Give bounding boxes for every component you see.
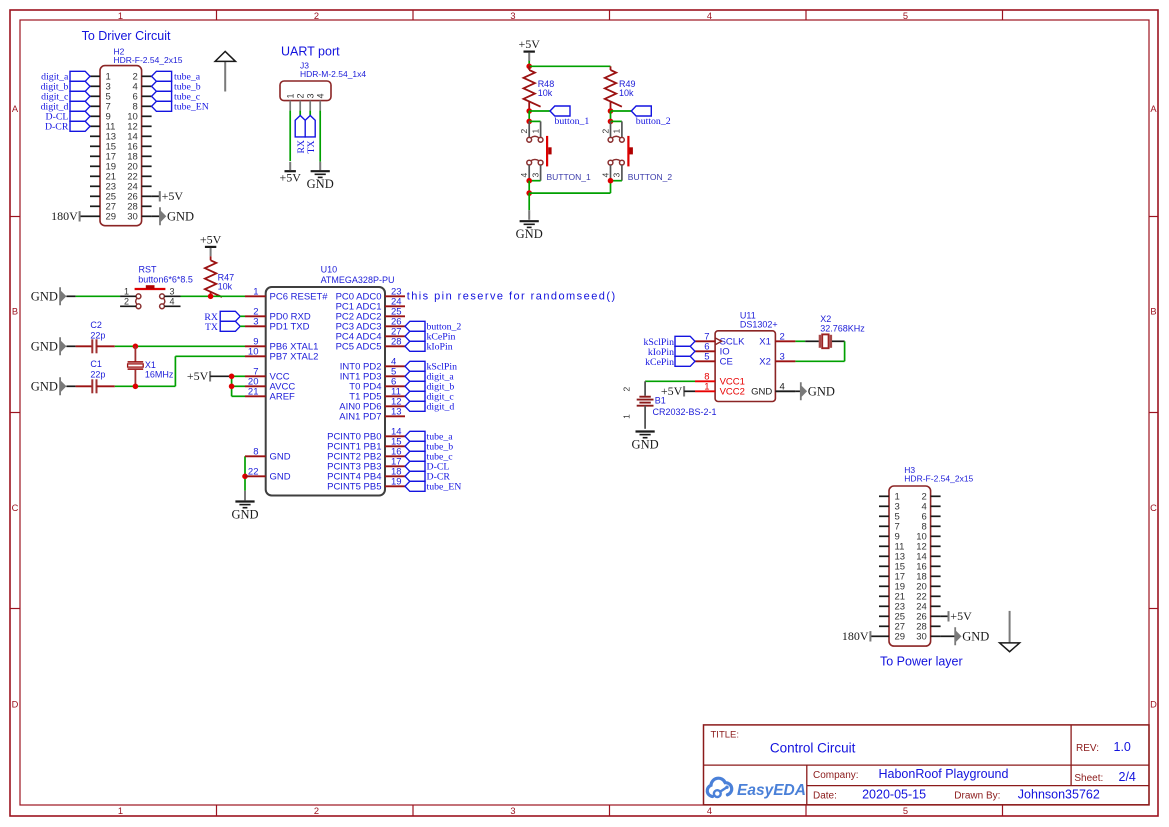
- U10 right pins: leads, numbers, names: [327, 287, 405, 493]
- H2 pins 1-30: stubs and pin numbers: [90, 72, 152, 223]
- svg-text:3: 3: [530, 173, 540, 178]
- wire junction to R49 top: [529, 65, 610, 67]
- svg-text:PD1 TXD: PD1 TXD: [270, 322, 310, 333]
- svg-text:GND: GND: [962, 629, 989, 643]
- net flag tube_EN (H2 pin 8): [152, 101, 209, 112]
- svg-text:B: B: [12, 307, 18, 317]
- net flag D-CR (H2 pin 11): [45, 121, 90, 132]
- net flag tube_c (U10 pin 16): [405, 451, 453, 462]
- svg-text:C1: C1: [90, 359, 102, 369]
- svg-text:To Driver Circuit: To Driver Circuit: [82, 29, 171, 43]
- svg-text:button_2: button_2: [636, 116, 671, 127]
- svg-text:22p: 22p: [90, 369, 105, 379]
- svg-text:4: 4: [707, 11, 712, 21]
- svg-text:2: 2: [124, 297, 129, 307]
- wire J3 pin1 to +5V: [289, 111, 291, 161]
- net flag digit_d (H2 pin 7): [41, 101, 90, 112]
- net flag tube_b (H2 pin 4): [152, 81, 201, 92]
- svg-text:D: D: [12, 700, 19, 710]
- svg-text:1.0: 1.0: [1114, 740, 1131, 754]
- svg-text:button6*6*8.5: button6*6*8.5: [138, 274, 193, 284]
- ground flag GND (RESET net): [59, 287, 66, 305]
- resistor R47 10k: [205, 256, 234, 297]
- svg-text:Control Circuit: Control Circuit: [770, 741, 856, 756]
- wire BUTTON_1 pin3 to pin4 node: [529, 180, 540, 182]
- svg-text:BUTTON_2: BUTTON_2: [628, 172, 673, 182]
- svg-text:HDR-F-2.54_2x15: HDR-F-2.54_2x15: [904, 474, 973, 484]
- net flag digit_b (U10 pin 6): [405, 381, 454, 392]
- svg-text:TX: TX: [205, 322, 218, 333]
- svg-text:GND: GND: [31, 289, 58, 303]
- connector H3 reference/value labels: [904, 465, 973, 484]
- ground flag GND (XTAL2 / C1): [59, 377, 66, 395]
- svg-text:2: 2: [314, 806, 319, 816]
- svg-text:1: 1: [118, 11, 123, 21]
- wire C2 to XTAL1: [115, 345, 245, 347]
- ground flag GND (XTAL1 / C2): [59, 337, 66, 355]
- net flag tube_a (U10 pin 14): [405, 431, 453, 442]
- junction BUTTON_1 bottom: [526, 178, 532, 184]
- connector H2 reference/value labels: [114, 47, 183, 66]
- svg-text:this pin reserve for randomsee: this pin reserve for randomseed(): [407, 291, 617, 303]
- svg-text:+5V: +5V: [187, 369, 209, 383]
- svg-text:GND: GND: [167, 209, 194, 223]
- svg-text:HDR-M-2.54_1x4: HDR-M-2.54_1x4: [300, 69, 366, 79]
- svg-text:10k: 10k: [619, 88, 634, 98]
- svg-text:2: 2: [600, 129, 610, 134]
- svg-text:5: 5: [704, 352, 709, 363]
- svg-text:X2: X2: [759, 357, 771, 368]
- power flag +5V (H2 pin 26): [152, 189, 184, 203]
- wire R49 junction down to BUTTON_2 pin2: [608, 111, 622, 124]
- wire VCC1 to battery B1: [645, 380, 695, 382]
- svg-text:4: 4: [519, 173, 529, 178]
- svg-text:PC6 RESET#: PC6 RESET#: [270, 292, 329, 303]
- svg-text:To Power layer: To Power layer: [880, 654, 963, 668]
- svg-text:16MHz: 16MHz: [145, 370, 174, 380]
- svg-text:A: A: [1150, 104, 1157, 114]
- connector H3 body HDR-F-2.54_2x15: [889, 486, 931, 646]
- svg-text:tube_EN: tube_EN: [174, 102, 209, 113]
- svg-text:2: 2: [295, 93, 305, 98]
- svg-text:U10: U10: [321, 264, 338, 274]
- power flag +5V (H3 pin 26): [941, 609, 972, 623]
- svg-text:5: 5: [903, 11, 908, 21]
- svg-text:TITLE:: TITLE:: [711, 729, 740, 740]
- svg-text:Date:: Date:: [813, 790, 837, 801]
- svg-text:PC5 ADC5: PC5 ADC5: [336, 342, 382, 353]
- svg-text:CR2032-BS-2-1: CR2032-BS-2-1: [653, 407, 717, 417]
- U11 left pins SCLK/IO/CE leads and numbers: [695, 332, 745, 368]
- svg-text:1: 1: [285, 93, 295, 98]
- ground flag GND (H2 pin 30): [152, 207, 194, 225]
- net flag TX (J3 pin 3): [305, 116, 317, 154]
- svg-text:Company:: Company:: [813, 770, 859, 781]
- ground flag GND (H3 pin 30): [941, 627, 990, 645]
- svg-text:2: 2: [780, 332, 785, 343]
- svg-text:TX: TX: [306, 140, 317, 153]
- wire U10 GND pins to ground: [244, 456, 246, 491]
- junction at BUTTON_1 pins 1/2: [526, 119, 532, 125]
- pushbutton BUTTON_1: [519, 121, 591, 181]
- svg-text:C: C: [1150, 503, 1157, 513]
- IC U10 reference/value labels: [321, 264, 395, 285]
- ground symbol GND (battery B1): [636, 430, 655, 432]
- junction at +5V / R48 / R49: [526, 64, 532, 70]
- IC U10 ATMEGA328P-PU body: [266, 287, 385, 496]
- svg-text:RST: RST: [139, 265, 158, 275]
- crystal X1 16MHz: [128, 346, 174, 386]
- svg-text:3: 3: [510, 806, 515, 816]
- svg-text:30: 30: [127, 212, 138, 223]
- svg-text:28: 28: [391, 337, 402, 348]
- crystal X2 32.768KHz: [820, 314, 865, 348]
- svg-text:+5V: +5V: [950, 609, 972, 623]
- svg-text:B: B: [1150, 307, 1156, 317]
- svg-text:29: 29: [106, 212, 117, 223]
- svg-text:1: 1: [622, 414, 632, 419]
- net flag digit_d (U10 pin 12): [405, 401, 454, 412]
- connector H2 body HDR-F-2.54_2x15: [100, 66, 142, 226]
- net flag tube_c (H2 pin 6): [152, 91, 201, 102]
- svg-text:GND: GND: [270, 472, 291, 483]
- power flag +5V (R47): [205, 246, 216, 248]
- svg-text:+5V: +5V: [518, 37, 540, 51]
- svg-text:+5V: +5V: [200, 232, 222, 246]
- wire BUTTON_1 bottom down: [528, 181, 530, 193]
- svg-text:3: 3: [510, 11, 515, 21]
- svg-text:C: C: [12, 503, 19, 513]
- ground symbol GND (J3 pin 4): [307, 162, 334, 192]
- net flag digit_c (H2 pin 5): [41, 91, 90, 102]
- svg-text:GND: GND: [231, 508, 258, 522]
- svg-text:GND: GND: [632, 438, 659, 452]
- svg-text:kCePin: kCePin: [645, 357, 674, 368]
- svg-text:GND: GND: [751, 387, 772, 398]
- capacitor C1 22p: [66, 359, 114, 393]
- wire junction to BUTTON_1 pin1: [529, 120, 540, 122]
- svg-text:REV:: REV:: [1076, 743, 1099, 754]
- net flag kCePin (U10 pin 27): [405, 331, 455, 342]
- net flag button_1: [550, 106, 589, 127]
- svg-text:1: 1: [704, 382, 709, 393]
- net flag digit_a (H2 pin 1): [41, 71, 90, 82]
- svg-text:D-CR: D-CR: [45, 122, 69, 133]
- svg-text:AREF: AREF: [270, 392, 296, 403]
- svg-text:4: 4: [600, 173, 610, 178]
- capacitor C2 22p: [66, 320, 114, 353]
- svg-text:Sheet:: Sheet:: [1074, 773, 1103, 784]
- svg-text:2: 2: [519, 129, 529, 134]
- svg-text:3: 3: [780, 352, 785, 363]
- svg-text:13: 13: [391, 407, 402, 418]
- net flag kIoPin (U11): [648, 346, 695, 358]
- wire buttons GND rail down: [528, 193, 530, 210]
- svg-text:GND: GND: [307, 177, 334, 191]
- svg-text:2: 2: [622, 387, 632, 392]
- svg-text:3: 3: [169, 286, 174, 296]
- ground symbol GND (buttons): [516, 210, 543, 241]
- net flag kSclPin (U10 pin 4): [405, 361, 457, 372]
- H3 pins 1-30: stubs and pin numbers: [879, 492, 941, 643]
- junction U10 GND pins: [242, 474, 248, 480]
- svg-text:10: 10: [248, 347, 259, 358]
- wire RST pin3 to U10 PC6: [181, 295, 246, 297]
- connector J3 reference/value labels: [300, 61, 366, 80]
- svg-text:+5V: +5V: [279, 171, 301, 185]
- U11 GND pin 4 (black): [751, 382, 795, 398]
- IC U11 reference/value labels: [740, 310, 778, 329]
- svg-text:DS1302+: DS1302+: [740, 320, 778, 330]
- svg-text:HDR-F-2.54_2x15: HDR-F-2.54_2x15: [114, 55, 183, 65]
- net flag digit_c (U10 pin 11): [405, 391, 454, 402]
- connector J3 body HDR-M-2.54_1x4: [280, 81, 331, 101]
- net flag RX (J3 pin 2): [295, 116, 307, 154]
- junction +5V/VCC: [229, 374, 235, 380]
- svg-text:button_1: button_1: [555, 116, 590, 127]
- net flag TX (U10 TXD): [205, 321, 245, 333]
- svg-text:GND: GND: [31, 339, 58, 353]
- wire C1 to XTAL2 (via corner): [115, 356, 245, 386]
- svg-text:2: 2: [314, 11, 319, 21]
- U11 right pins X1/X2 leads and numbers: [759, 332, 795, 368]
- svg-text:1: 1: [124, 286, 129, 296]
- svg-text:3: 3: [253, 317, 258, 328]
- net flag kIoPin (U10 pin 28): [405, 341, 453, 352]
- svg-text:4: 4: [780, 382, 785, 393]
- wire +5V to VCC/AVCC/AREF: [210, 376, 245, 396]
- pushbutton RST button6*6*8.5: [120, 265, 193, 309]
- svg-text:VCC2: VCC2: [720, 387, 745, 398]
- ground flag GND (U11 pin 4): [795, 382, 834, 400]
- junction R48 / button_1 flag: [526, 108, 532, 114]
- svg-text:1: 1: [530, 129, 540, 134]
- power flag +5V (top of button pull-ups): [524, 50, 535, 52]
- svg-text:GND: GND: [270, 452, 291, 463]
- wire BUTTON_2 pin3 to pin4 node: [608, 178, 622, 184]
- battery B1 CR2032-BS-2-1: [622, 381, 717, 429]
- svg-text:kIoPin: kIoPin: [427, 342, 453, 353]
- EasyEDA logo: [707, 778, 806, 799]
- svg-text:180V: 180V: [842, 629, 869, 643]
- wire J3 pin4 to GND: [319, 111, 321, 162]
- junction R47 / RESET wire: [208, 294, 214, 300]
- wire GND rail across to BUTTON_2: [529, 181, 610, 193]
- svg-text:CE: CE: [720, 357, 733, 368]
- svg-text:1: 1: [253, 287, 258, 298]
- svg-text:Johnson35762: Johnson35762: [1018, 787, 1100, 801]
- svg-text:digit_d: digit_d: [427, 402, 455, 413]
- power flag +5V (U10 VCC): [209, 371, 211, 381]
- svg-text:29: 29: [895, 632, 906, 643]
- U10 left pins: leads, numbers, names: [245, 287, 328, 483]
- wire GND flag to RST pin1: [66, 295, 120, 297]
- title block: [704, 725, 1150, 805]
- J3 pins 1-4: stubs and rotated pin numbers: [285, 93, 325, 110]
- svg-text:1: 1: [612, 129, 622, 134]
- junction GND rail left: [526, 190, 532, 196]
- svg-text:2020-05-15: 2020-05-15: [862, 787, 926, 801]
- down arrow symbol (to power layer): [1000, 611, 1020, 652]
- net flag tube_a (H2 pin 2): [152, 71, 201, 82]
- net flag kSclPin (U11): [644, 336, 696, 348]
- svg-text:BUTTON_1: BUTTON_1: [547, 172, 592, 182]
- wire R48 junction down to BUTTON_1 pin2: [528, 111, 530, 121]
- wire J3 pin2 to RX flag: [299, 111, 301, 116]
- svg-text:10k: 10k: [218, 281, 233, 291]
- net flag kCePin (U11): [645, 356, 695, 368]
- svg-text:tube_EN: tube_EN: [427, 482, 462, 493]
- U11 VCC2 pin 1 (red): [695, 382, 745, 398]
- svg-text:D: D: [1150, 700, 1157, 710]
- svg-text:AIN1 PD7: AIN1 PD7: [339, 412, 381, 423]
- power flag 180V (H3 pin 29): [842, 629, 879, 643]
- svg-text:22: 22: [248, 467, 259, 478]
- svg-text:19: 19: [391, 477, 402, 488]
- resistor R49 10k: [605, 66, 636, 111]
- svg-text:4: 4: [315, 93, 325, 98]
- power flag +5V (J3 pin 1): [285, 170, 296, 172]
- svg-text:1: 1: [118, 806, 123, 816]
- svg-text:180V: 180V: [51, 209, 78, 223]
- svg-text:A: A: [12, 104, 19, 114]
- power flag 180V (H2 pin 29): [51, 209, 90, 223]
- net flag D-CR (U10 pin 18): [405, 471, 450, 482]
- net flag D-CL (U10 pin 17): [405, 461, 449, 472]
- svg-text:+5V: +5V: [661, 384, 683, 398]
- net flag tube_b (U10 pin 15): [405, 441, 453, 452]
- svg-text:21: 21: [248, 387, 259, 398]
- svg-text:2/4: 2/4: [1119, 770, 1136, 784]
- svg-text:Drawn By:: Drawn By:: [954, 790, 1000, 801]
- pushbutton BUTTON_2: [600, 121, 672, 181]
- svg-text:5: 5: [903, 806, 908, 816]
- net flag D-CL (H2 pin 9): [46, 111, 90, 122]
- svg-text:X1: X1: [759, 337, 771, 348]
- svg-text:30: 30: [916, 632, 927, 643]
- net flag button_2: [631, 106, 670, 127]
- net flag digit_a (U10 pin 5): [405, 371, 454, 382]
- junction C1 / X1 bottom: [133, 384, 139, 390]
- wire R49 junction to button_2 flag: [608, 108, 632, 114]
- svg-text:EasyEDA: EasyEDA: [737, 782, 806, 799]
- svg-text:UART port: UART port: [281, 45, 340, 59]
- svg-text:GND: GND: [31, 379, 58, 393]
- svg-text:ATMEGA328P-PU: ATMEGA328P-PU: [321, 275, 395, 285]
- svg-text:22p: 22p: [90, 331, 105, 341]
- svg-text:+5V: +5V: [162, 189, 184, 203]
- IC U11 DS1302+ body: [715, 331, 775, 402]
- net flag button_2 (U10 pin 26): [405, 321, 461, 332]
- svg-text:32.768KHz: 32.768KHz: [820, 323, 865, 333]
- svg-text:10k: 10k: [538, 88, 553, 98]
- svg-text:C2: C2: [90, 320, 102, 330]
- wire +5V to R48 top: [528, 61, 530, 67]
- svg-text:3: 3: [612, 173, 622, 178]
- svg-text:HabonRoof Playground: HabonRoof Playground: [879, 767, 1009, 781]
- svg-text:8: 8: [253, 447, 258, 458]
- power flag +5V (U11 VCC2): [661, 384, 695, 398]
- up arrow symbol (to driver circuit): [215, 51, 235, 91]
- svg-text:X1: X1: [145, 360, 156, 370]
- svg-text:GND: GND: [808, 384, 835, 398]
- wire R48 to button_1 flag: [529, 110, 550, 112]
- net flag tube_EN (U10 pin 19): [405, 481, 461, 492]
- svg-text:3: 3: [305, 93, 315, 98]
- net flag digit_b (H2 pin 3): [41, 81, 90, 92]
- net flag RX (U10 RXD): [204, 311, 245, 323]
- resistor R48 10k: [524, 66, 555, 111]
- svg-text:4: 4: [707, 806, 712, 816]
- svg-text:4: 4: [169, 297, 174, 307]
- svg-text:PB7 XTAL2: PB7 XTAL2: [270, 352, 319, 363]
- svg-text:PCINT5 PB5: PCINT5 PB5: [327, 482, 381, 493]
- svg-text:GND: GND: [516, 227, 543, 241]
- junction XTAL1 / X1 top: [133, 344, 139, 350]
- wire crystal X2 to U11 X2 pin: [795, 341, 844, 361]
- wire X1 to crystal X2: [795, 340, 819, 342]
- ground symbol GND (U10): [231, 491, 258, 522]
- wire J3 pin3 to TX flag: [309, 111, 311, 116]
- U11 VCC1 pin 8 (red): [695, 372, 745, 388]
- junction +5V/AVCC: [229, 384, 235, 390]
